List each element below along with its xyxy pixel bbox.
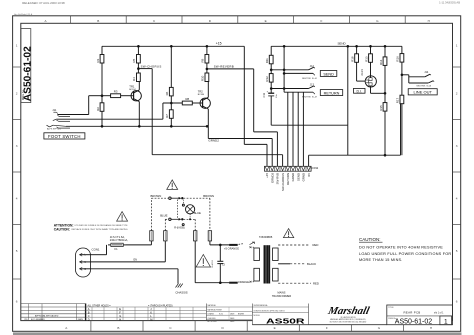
svg-text:R8: R8 bbox=[186, 97, 190, 101]
svg-text:F: F bbox=[321, 19, 323, 23]
svg-text:D: D bbox=[88, 318, 90, 322]
svg-text:R10: R10 bbox=[201, 75, 205, 81]
svg-text:CAUTION:: CAUTION: bbox=[54, 227, 70, 231]
svg-text:F: F bbox=[326, 326, 328, 330]
svg-text:S.G.: S.G. bbox=[219, 314, 224, 316]
svg-text:1: 1 bbox=[456, 43, 458, 47]
svg-text:MORE THAN 15 MINS.: MORE THAN 15 MINS. bbox=[359, 258, 403, 262]
svg-text:BC184: BC184 bbox=[198, 94, 205, 96]
svg-text:RELEASED: 07 AUG 2003 13:38: RELEASED: 07 AUG 2003 13:38 bbox=[22, 1, 65, 5]
svg-text:SEND: SEND bbox=[296, 173, 300, 181]
svg-text:E: E bbox=[119, 307, 121, 311]
svg-text:A: A bbox=[88, 307, 90, 311]
svg-text:J11: J11 bbox=[52, 108, 57, 112]
svg-text:CON2: CON2 bbox=[310, 166, 318, 170]
svg-text:GRND2: GRND2 bbox=[208, 139, 219, 143]
svg-text:BROWN: BROWN bbox=[151, 194, 162, 198]
svg-text:GRND: GRND bbox=[302, 173, 306, 182]
svg-text:C: C bbox=[88, 314, 90, 318]
svg-text:M: M bbox=[150, 318, 152, 322]
svg-text:BLUE: BLUE bbox=[160, 213, 167, 217]
svg-text:TRANSFORMER: TRANSFORMER bbox=[272, 295, 292, 298]
svg-text:MATERIAL FINISH: MATERIAL FINISH bbox=[208, 308, 223, 311]
svg-text:MODEL: MODEL bbox=[254, 315, 260, 317]
svg-text:R4: R4 bbox=[132, 77, 136, 81]
svg-text:R7: R7 bbox=[165, 114, 169, 118]
svg-text:4: 4 bbox=[16, 197, 18, 201]
svg-text:RETURN: RETURN bbox=[286, 173, 290, 185]
svg-text:D.I.: D.I. bbox=[356, 89, 361, 93]
svg-text:1: 1 bbox=[444, 318, 448, 325]
svg-text:F1: F1 bbox=[115, 247, 119, 251]
svg-text:sht 1 of 1: sht 1 of 1 bbox=[434, 312, 444, 315]
svg-text:+15: +15 bbox=[216, 41, 222, 45]
svg-text:NEUTRIK SL-M: NEUTRIK SL-M bbox=[417, 85, 432, 87]
svg-text:4: 4 bbox=[456, 197, 458, 201]
svg-text:GRND2: GRND2 bbox=[270, 173, 274, 184]
svg-text:R9: R9 bbox=[201, 58, 205, 62]
svg-text:REAR PCB: REAR PCB bbox=[404, 311, 421, 315]
svg-text:SW-RVB: SW-RVB bbox=[276, 173, 280, 185]
svg-text:H: H bbox=[430, 326, 432, 330]
svg-text:6: 6 bbox=[16, 300, 18, 304]
svg-text:ORANGE: ORANGE bbox=[238, 280, 250, 284]
svg-text:+5 ORANGE: +5 ORANGE bbox=[224, 247, 239, 251]
svg-text:CON1: CON1 bbox=[92, 248, 100, 252]
svg-text:XLR1: XLR1 bbox=[360, 69, 364, 76]
svg-text:NEUTRIK SL-M: NEUTRIK SL-M bbox=[302, 78, 317, 80]
svg-text:SEND: SEND bbox=[338, 41, 346, 45]
svg-text:R6: R6 bbox=[165, 91, 169, 95]
svg-text:5: 5 bbox=[456, 249, 458, 253]
svg-text:TR2: TR2 bbox=[198, 90, 204, 94]
svg-text:Marshall: Marshall bbox=[326, 305, 372, 317]
svg-text:BLACK: BLACK bbox=[307, 262, 316, 266]
svg-text:E: E bbox=[265, 19, 267, 23]
svg-text:UTILISER UN FUSIBLE DE RECHANG: UTILISER UN FUSIBLE DE RECHANGE DE MEME … bbox=[75, 224, 129, 227]
svg-text:3: 3 bbox=[16, 144, 18, 148]
svg-text:GRND: GRND bbox=[291, 173, 295, 182]
svg-text:R12: R12 bbox=[265, 76, 269, 82]
svg-text:5: 5 bbox=[16, 249, 18, 253]
svg-text:CHASSIS: CHASSIS bbox=[175, 291, 187, 295]
svg-text:T26300BFB: T26300BFB bbox=[259, 236, 273, 239]
svg-text:B: B bbox=[97, 19, 99, 23]
svg-text:SW-CHORUS: SW-CHORUS bbox=[281, 173, 285, 191]
svg-text:6: 6 bbox=[456, 300, 458, 304]
svg-text:SEND: SEND bbox=[323, 72, 334, 76]
svg-text:2: 2 bbox=[16, 92, 18, 96]
svg-text:1-11.34(6303) AB: 1-11.34(6303) AB bbox=[439, 0, 460, 4]
svg-text:LINE OUT: LINE OUT bbox=[413, 90, 432, 95]
svg-text:1: 1 bbox=[16, 43, 18, 47]
svg-text:Am.No/Model (R) A: Am.No/Model (R) A bbox=[14, 13, 33, 16]
svg-text:R11: R11 bbox=[265, 58, 269, 63]
svg-text:CLASS2: CLASS2 bbox=[211, 259, 214, 268]
svg-text:R1: R1 bbox=[96, 58, 100, 62]
svg-text:B: B bbox=[88, 311, 90, 315]
svg-text:0V: 0V bbox=[307, 173, 311, 177]
svg-text:8/6/98: 8/6/98 bbox=[238, 314, 245, 316]
svg-text:J14: J14 bbox=[424, 70, 429, 74]
svg-text:ALPS SPPH22: ALPS SPPH22 bbox=[47, 128, 62, 131]
svg-text:R18: R18 bbox=[350, 56, 354, 62]
svg-text:R2: R2 bbox=[96, 107, 100, 111]
svg-text:+15: +15 bbox=[265, 173, 269, 178]
svg-text:DWG.No.: DWG.No. bbox=[21, 89, 25, 100]
svg-text:DRAWN: DRAWN bbox=[208, 312, 215, 315]
svg-text:R15: R15 bbox=[379, 105, 383, 111]
svg-text:BC184: BC184 bbox=[129, 89, 136, 91]
svg-text:R17: R17 bbox=[396, 98, 400, 104]
svg-text:APPROVED: APPROVED bbox=[208, 320, 218, 323]
svg-text:NEUTRIK SL-M: NEUTRIK SL-M bbox=[302, 97, 317, 99]
svg-text:230v=T800mA,: 230v=T800mA, bbox=[110, 238, 129, 242]
svg-text:ECO NUMBER: ECO NUMBER bbox=[31, 319, 45, 321]
svg-text:RETURN: RETURN bbox=[324, 92, 340, 96]
svg-text:TITLE: TITLE bbox=[388, 307, 394, 309]
svg-text:REPLACE FUSES ONLY WITH SAME T: REPLACE FUSES ONLY WITH SAME TYPE AND RA… bbox=[72, 228, 129, 231]
svg-text:K: K bbox=[150, 311, 152, 315]
svg-text:R13: R13 bbox=[364, 56, 368, 62]
svg-text:G: G bbox=[119, 314, 121, 318]
svg-text:J13: J13 bbox=[310, 83, 315, 87]
svg-text:TR1: TR1 bbox=[129, 84, 135, 88]
svg-text:EN: EN bbox=[134, 259, 138, 262]
svg-text:LOAD UNDER FULL POWER CONDITIO: LOAD UNDER FULL POWER CONDITIONS FOR bbox=[359, 252, 451, 256]
svg-text:APPROVAL INFO ADDED: APPROVAL INFO ADDED bbox=[35, 315, 59, 318]
svg-text:3: 3 bbox=[456, 144, 458, 148]
svg-text:FOOT SWITCH: FOOT SWITCH bbox=[48, 134, 81, 139]
svg-text:2: 2 bbox=[456, 92, 458, 96]
svg-text:J12: J12 bbox=[310, 64, 315, 68]
svg-text:R14: R14 bbox=[379, 59, 383, 65]
svg-text:R3: R3 bbox=[114, 90, 118, 94]
svg-text:H: H bbox=[428, 19, 430, 23]
svg-text:DATE: DATE bbox=[78, 318, 84, 321]
svg-text:E: E bbox=[274, 326, 276, 330]
svg-text:SW-CHORUS: SW-CHORUS bbox=[141, 65, 162, 69]
svg-text:MATERIAL: MATERIAL bbox=[208, 304, 216, 307]
svg-text:R16: R16 bbox=[396, 56, 400, 62]
svg-text:SW-REVERB: SW-REVERB bbox=[214, 64, 234, 68]
svg-text:RED: RED bbox=[313, 281, 319, 285]
svg-text:CHECKED: CHECKED bbox=[208, 318, 217, 320]
svg-text:CAUTION:: CAUTION: bbox=[359, 237, 381, 242]
svg-text:C11: C11 bbox=[262, 92, 266, 97]
svg-text:R-(N-DB): R-(N-DB) bbox=[174, 226, 185, 229]
svg-text:RED: RED bbox=[313, 243, 319, 247]
svg-text:AS50-61-02: AS50-61-02 bbox=[395, 319, 432, 326]
svg-text:BROWN: BROWN bbox=[203, 194, 214, 198]
svg-text:DO NOT OPERATE INTO 4OHM RESIS: DO NOT OPERATE INTO 4OHM RESISTIVE bbox=[359, 246, 443, 250]
svg-text:SUPERSEDES A: SUPERSEDES A bbox=[254, 304, 269, 307]
svg-text:B: B bbox=[117, 326, 119, 330]
svg-text:BLUE: BLUE bbox=[194, 211, 201, 215]
svg-text:R5: R5 bbox=[132, 58, 136, 62]
svg-text:H: H bbox=[119, 318, 121, 322]
